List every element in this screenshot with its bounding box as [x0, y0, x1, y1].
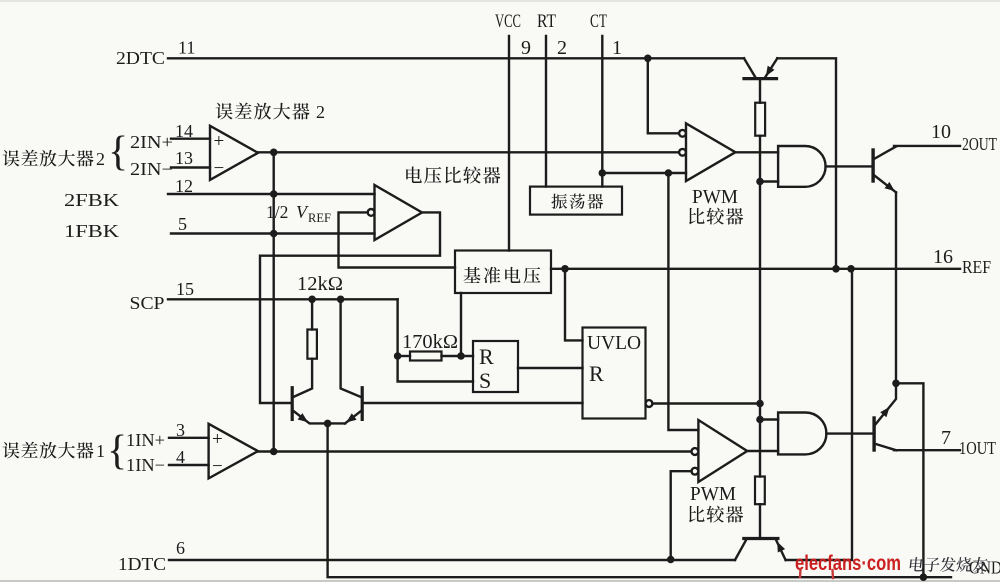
svg-text:2OUT: 2OUT: [962, 134, 997, 154]
resistor 12k: [307, 330, 317, 359]
wire pin 5 1FBK: [171, 232, 375, 234]
op-amp U1 error amplifier 2: [210, 126, 258, 180]
wire node to AND1 input: [760, 180, 778, 182]
wire VCC vertical: [508, 36, 510, 251]
svg-text:2: 2: [557, 37, 567, 59]
wire Q4 emitter up: [874, 383, 896, 426]
junction 170k left: [394, 352, 402, 360]
wire pin 12 2FBK: [168, 193, 375, 195]
junction EA2 output: [270, 149, 278, 157]
wire AND1 output: [826, 165, 874, 167]
node error amplifier 1 left label: [3, 442, 94, 459]
junction 170k right: [457, 352, 465, 360]
svg-text:2IN+: 2IN+: [130, 132, 173, 152]
reference voltage block: [455, 251, 551, 294]
junction 2FBK node: [270, 190, 278, 198]
transistor Q3 bar: [871, 150, 874, 181]
wire R2 to Q6 collector: [759, 504, 761, 538]
wire sawtooth down to comparator 2: [668, 173, 698, 430]
junction on 2DTC line: [644, 55, 652, 63]
wire Q1 emitter: [292, 410, 345, 423]
svg-text:15: 15: [176, 279, 194, 299]
wire PWM2 output: [747, 450, 778, 452]
wire AND2 output: [826, 432, 874, 434]
wire error amp 2 output: [258, 151, 679, 153]
wire 170k right lead: [442, 355, 474, 357]
wire SCP to Q2 collector: [341, 299, 363, 397]
transistor Q1 base bar: [291, 388, 294, 420]
svg-text:1DTC: 1DTC: [118, 554, 166, 574]
transistor Q5 2DTC pnp bar: [744, 77, 777, 80]
bottom edge artifact: [0, 580, 1000, 582]
comparator U6 PWM 1: [686, 123, 735, 181]
wire REF line pin 16: [551, 268, 960, 270]
wire Q6 right to REF: [786, 269, 852, 560]
svg-text:1: 1: [612, 37, 622, 59]
wire pin 3: [169, 437, 209, 439]
svg-text:1IN−: 1IN−: [126, 455, 165, 475]
wire 2DTC pin 11 line: [168, 57, 744, 59]
svg-text:CT: CT: [590, 11, 607, 32]
wire Q5 emitter diagonal: [765, 58, 778, 78]
gate U7 AND 1: [778, 146, 826, 187]
input bubble PWM2 bottom: [692, 468, 699, 475]
latch U3 RS box: [473, 341, 518, 392]
wire pin 13: [171, 166, 210, 168]
wire RT vertical: [545, 36, 547, 187]
svg-text:UVLO: UVLO: [587, 332, 641, 354]
svg-text:10: 10: [931, 121, 951, 143]
svg-text:VCC: VCC: [495, 11, 521, 32]
transistor Q4 bar: [872, 418, 875, 450]
svg-text:1/2: 1/2: [266, 202, 288, 222]
wire pin 14: [171, 137, 210, 139]
svg-text:−: −: [212, 456, 223, 477]
wire REF to UVLO corner: [565, 269, 583, 341]
wire pin 6 1DTC: [169, 559, 735, 561]
input bubble PWM1 top: [679, 130, 686, 137]
wire 2DTC into Q5: [744, 58, 756, 78]
wire Q4 collector: [874, 444, 896, 451]
wire Q5 collector: [759, 79, 761, 103]
comparator U8 PWM 2: [698, 420, 747, 482]
op-amp U5 error amplifier 1: [209, 424, 258, 479]
wire 12k top: [311, 299, 313, 329]
junction sawtooth to lower comparator: [665, 169, 673, 177]
wire Q2 base to UVLO: [362, 402, 582, 404]
wire Q2 emitter: [345, 410, 362, 423]
svg-text:PWM: PWM: [690, 483, 736, 505]
node error amplifier 2 left label: [3, 150, 94, 167]
oscillator block: [530, 187, 622, 215]
svg-text:SCP: SCP: [130, 293, 165, 313]
wire 2DTC to PWM comparator bubble: [648, 58, 679, 133]
arrow Q6 emitter: [777, 542, 785, 553]
svg-text:+: +: [214, 131, 225, 152]
wire Q6 emitter diagonal: [776, 539, 786, 560]
wire Q3 emitter down: [895, 192, 897, 383]
junction emitters: [892, 380, 900, 388]
wire pin 15 SCP: [168, 298, 398, 300]
svg-text:6: 6: [176, 538, 185, 558]
svg-text:−: −: [214, 158, 225, 179]
wire 1DTC into Q6: [735, 539, 747, 560]
svg-text:2: 2: [96, 149, 105, 169]
input bubble on voltage comparator: [368, 209, 375, 216]
svg-text:9: 9: [521, 37, 531, 59]
input bubble PWM1 mid: [679, 149, 686, 156]
input bubble PWM2 mid: [692, 448, 699, 455]
junction node to AND2: [756, 416, 764, 424]
top edge artifact: [0, 0, 1000, 2]
watermark ink drips: [800, 569, 833, 578]
junction EA1 output: [270, 448, 278, 456]
arrow Q3 emitter: [885, 182, 895, 191]
junction REF right 2: [847, 265, 855, 273]
transistor Q2 base bar: [361, 388, 364, 420]
svg-text:2DTC: 2DTC: [116, 48, 165, 68]
svg-text:1FBK: 1FBK: [64, 221, 119, 241]
svg-text:R: R: [479, 344, 494, 369]
wire 1DTC to PWM2 bubble: [671, 471, 692, 559]
wire node to AND2 input: [760, 418, 778, 420]
wire oscillator sawtooth: [602, 172, 686, 174]
wire 12k bottom to Q1 collector: [292, 359, 312, 398]
resistor R2 bottom: [755, 477, 765, 505]
svg-text:R: R: [589, 361, 604, 386]
svg-text:REF: REF: [308, 211, 331, 225]
svg-text:{: {: [107, 428, 127, 474]
svg-text:REF: REF: [962, 257, 991, 277]
wire Q3 collector: [873, 147, 896, 160]
wire 170k left lead: [398, 355, 410, 357]
svg-text:2IN−: 2IN−: [130, 159, 173, 179]
wire UVLO output: [652, 402, 760, 404]
comparator U4 UVLO box: [583, 328, 646, 419]
svg-text:5: 5: [178, 214, 187, 234]
svg-text:1IN+: 1IN+: [126, 430, 165, 450]
svg-text:2: 2: [316, 102, 325, 122]
svg-text:elecfans·com: elecfans·com: [795, 551, 901, 575]
junction common emitter: [324, 420, 332, 428]
junction node to AND1: [756, 178, 764, 186]
gate U9 AND 2: [778, 413, 826, 455]
svg-text:+: +: [212, 429, 223, 450]
arrow Q2 emitter: [346, 413, 356, 422]
comparator U2 voltage comparator label: [406, 166, 500, 183]
wire pin 4: [169, 464, 209, 466]
wire pin 10 line: [894, 145, 960, 147]
arrow Q5 emitter: [766, 66, 775, 77]
wire PWM1 output: [735, 151, 778, 153]
arrow Q1 emitter: [298, 413, 308, 422]
svg-text:1: 1: [96, 441, 105, 461]
junction CT sawtooth: [599, 169, 607, 177]
comparator U2 voltage comparator: [375, 185, 423, 240]
transistor Q6 1DTC pnp bar: [744, 537, 778, 540]
arrow Q4 emitter: [880, 407, 889, 417]
svg-text:{: {: [108, 129, 128, 175]
junction SCP 12k: [308, 296, 316, 304]
svg-text:RT: RT: [537, 11, 556, 32]
svg-text:13: 13: [175, 148, 193, 168]
junction REF to UVLO: [561, 265, 569, 273]
wire Q3 emitter: [873, 175, 896, 193]
svg-text:S: S: [479, 368, 491, 393]
svg-text:7: 7: [941, 427, 951, 449]
junction 1FBK node: [270, 230, 278, 238]
svg-text:11: 11: [178, 38, 195, 58]
wire Vref to 170k node: [460, 293, 462, 356]
wire feedback node vertical: [273, 152, 275, 451]
wire Vref to comparator bubble: [339, 212, 456, 267]
wire voltage comparator output: [260, 212, 440, 403]
svg-text:PWM: PWM: [692, 186, 738, 208]
junction SCP collector: [337, 296, 345, 304]
junction 1DTC to PWM2: [667, 556, 675, 564]
wire Q5 right to REF: [777, 58, 836, 268]
junction REF right 1: [832, 265, 840, 273]
wire emitters to ground: [896, 383, 923, 577]
junction ground: [920, 573, 928, 581]
output bubble UVLO: [646, 400, 653, 407]
wire SCP down to S input: [398, 299, 473, 381]
svg-text:16: 16: [933, 246, 953, 268]
svg-text:170kΩ: 170kΩ: [402, 331, 458, 353]
wire RS output to UVLO R: [518, 367, 583, 369]
op-amp U1 error amplifier 2 title: [216, 103, 310, 120]
svg-text:1OUT: 1OUT: [959, 438, 996, 458]
wire CT vertical: [601, 36, 603, 187]
wire control node vertical: [759, 136, 761, 477]
wire error amp 1 output: [258, 450, 690, 452]
svg-text:12kΩ: 12kΩ: [297, 273, 343, 295]
svg-text:2FBK: 2FBK: [64, 190, 119, 210]
junction node UVLO: [756, 400, 764, 408]
resistor R1 top: [755, 103, 765, 136]
wire pin 7 line: [894, 449, 960, 451]
watermark chinese: [909, 557, 988, 572]
wire common emitter to ground: [328, 423, 951, 577]
resistor 170k: [410, 352, 442, 361]
